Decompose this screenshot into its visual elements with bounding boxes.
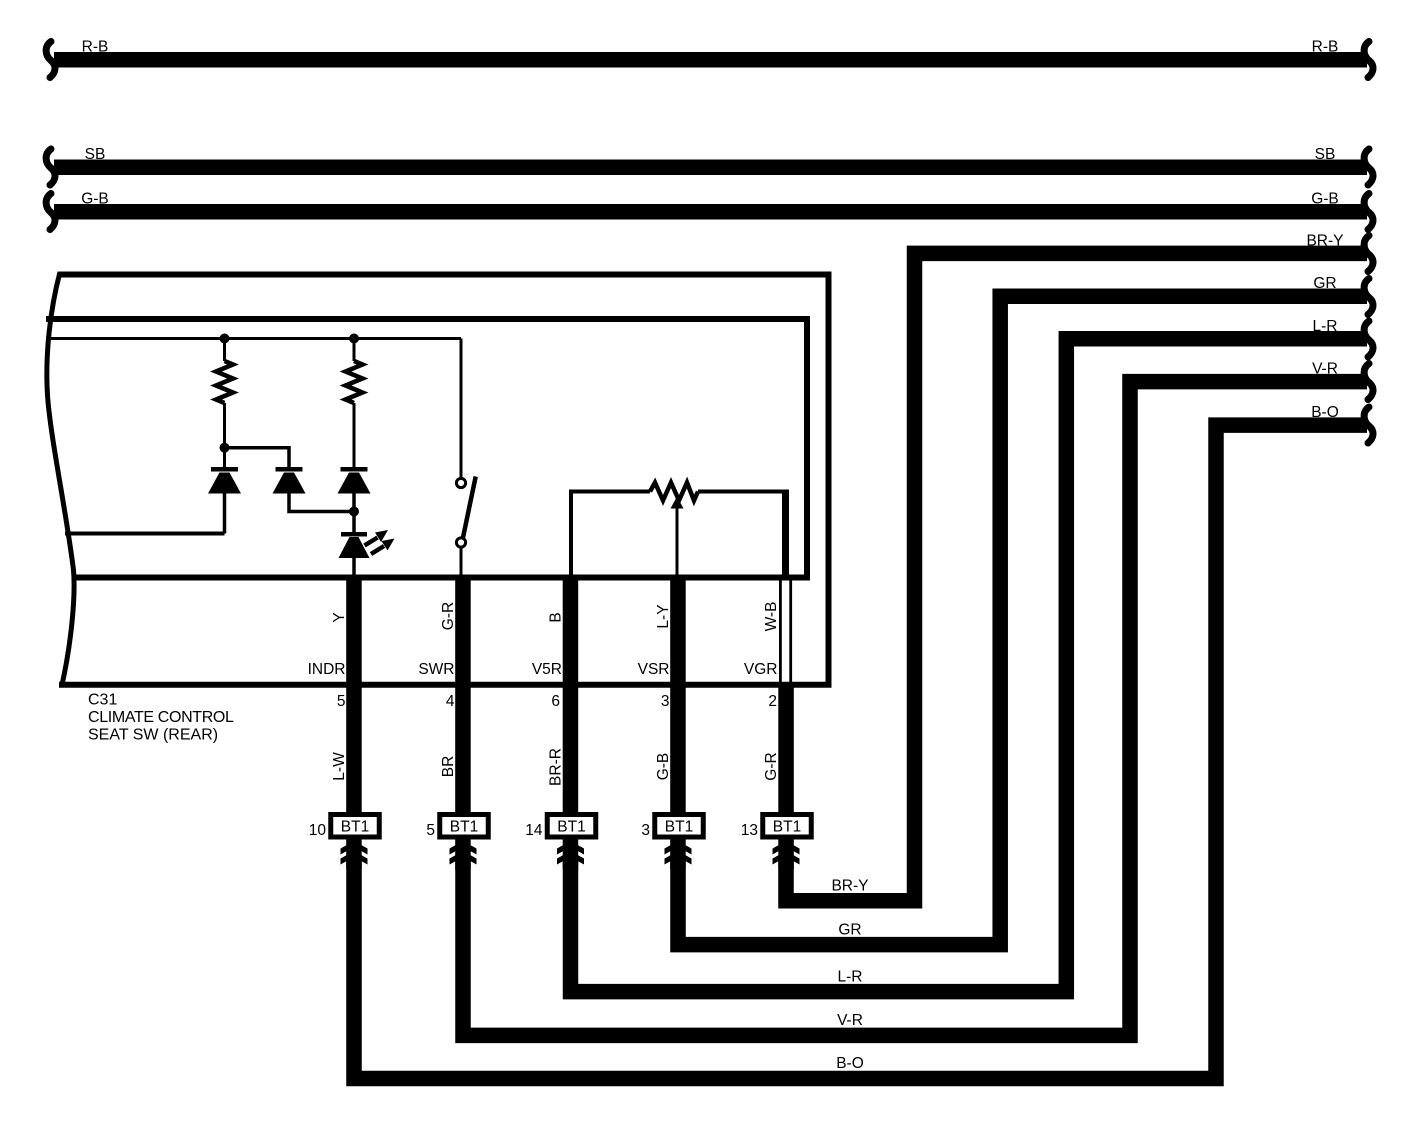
torn left edge of C31 bbox=[47, 272, 74, 687]
svg-text:BT1: BT1 bbox=[557, 819, 585, 836]
connector BT1 pin 5 bbox=[426, 815, 488, 840]
node B (right resistor top) bbox=[349, 334, 359, 344]
connector BT1 pin 13 bbox=[741, 815, 812, 840]
wire L-R (pin 14 BT1 to right edge) bbox=[571, 339, 1368, 992]
break symbol right of G-B bbox=[1364, 194, 1373, 230]
svg-text:BT1: BT1 bbox=[773, 819, 801, 836]
svg-text:R-B: R-B bbox=[82, 39, 109, 56]
svg-text:SB: SB bbox=[85, 146, 106, 163]
svg-text:L-Y: L-Y bbox=[655, 604, 672, 628]
switch blade bbox=[463, 477, 476, 538]
svg-text:B-O: B-O bbox=[1311, 404, 1339, 421]
svg-text:SWR: SWR bbox=[418, 661, 454, 678]
svg-text:SB: SB bbox=[1315, 146, 1336, 163]
svg-text:2: 2 bbox=[768, 693, 777, 710]
break symbol right of R-B bbox=[1364, 42, 1373, 78]
svg-text:BR-R: BR-R bbox=[548, 748, 565, 786]
diode D3 bbox=[338, 467, 371, 512]
svg-text:VSR: VSR bbox=[638, 661, 670, 678]
pin INDR bar (pin 5) bbox=[346, 575, 362, 813]
svg-text:BT1: BT1 bbox=[665, 819, 693, 836]
wire V-R (pin 5 BT1 to right edge) bbox=[463, 382, 1367, 1036]
svg-text:BR: BR bbox=[440, 756, 457, 778]
svg-text:INDR: INDR bbox=[308, 661, 346, 678]
svg-text:L-R: L-R bbox=[1313, 318, 1338, 335]
node D (junction above LED) bbox=[349, 507, 359, 517]
svg-text:V5R: V5R bbox=[532, 661, 562, 678]
svg-text:BR-Y: BR-Y bbox=[831, 878, 868, 895]
wire G-B bbox=[54, 204, 1367, 220]
svg-text:G-B: G-B bbox=[1311, 191, 1339, 208]
break symbol left of R-B bbox=[46, 42, 55, 78]
node A (left resistor top) bbox=[220, 334, 230, 344]
break symbol right of B-O bbox=[1364, 407, 1373, 443]
wire R-B (top horizontal) bbox=[54, 52, 1367, 68]
svg-text:6: 6 bbox=[551, 693, 560, 710]
svg-text:SEAT SW (REAR): SEAT SW (REAR) bbox=[88, 727, 218, 744]
label C31 connector name bbox=[88, 692, 234, 744]
connector BT1 pin 3 bbox=[641, 815, 703, 840]
break symbol right of GR bbox=[1364, 279, 1373, 315]
wire B-O (pin 10 BT1 to right edge) bbox=[354, 425, 1367, 1078]
svg-text:14: 14 bbox=[525, 822, 543, 839]
arrow into BT1 pin 3 bbox=[665, 840, 692, 870]
diode D2 bbox=[273, 467, 355, 512]
wire internal bus (thin, y=338.5) bbox=[47, 337, 461, 340]
break symbol right of L-R bbox=[1364, 321, 1373, 357]
wire jog node C to diode D2 bbox=[225, 448, 290, 467]
svg-text:VGR: VGR bbox=[744, 661, 778, 678]
diode D1 bbox=[208, 467, 241, 534]
svg-text:V-R: V-R bbox=[1312, 361, 1338, 378]
svg-text:5: 5 bbox=[426, 822, 435, 839]
wire D1 to torn edge bbox=[65, 532, 225, 536]
arrow into BT1 pin 14 bbox=[557, 840, 584, 870]
svg-text:Y: Y bbox=[331, 612, 348, 622]
svg-text:R-B: R-B bbox=[1312, 39, 1339, 56]
resistor R2 (right) bbox=[353, 339, 356, 362]
LED arrow 2 bbox=[371, 539, 395, 555]
break symbol left of G-B bbox=[46, 194, 55, 230]
svg-text:GR: GR bbox=[1313, 275, 1336, 292]
svg-text:G-B: G-B bbox=[655, 753, 672, 781]
break symbol left of SB bbox=[46, 149, 55, 185]
pin VGR solid bar below box bbox=[778, 682, 794, 812]
LED arrow 1 bbox=[365, 530, 389, 546]
svg-text:B: B bbox=[548, 612, 565, 622]
break symbol right of BR-Y bbox=[1364, 236, 1373, 272]
svg-text:BT1: BT1 bbox=[341, 819, 369, 836]
potentiometer VR1 bbox=[571, 483, 789, 579]
pin SWR bar (pin 4) bbox=[455, 575, 471, 813]
component C31 outer box bbox=[59, 275, 829, 685]
arrow into BT1 pin 13 bbox=[773, 840, 800, 870]
pin VGR hollow wire (pin 2, W-B) bbox=[779, 581, 792, 685]
node C (junction below R1) bbox=[220, 443, 230, 453]
svg-text:5: 5 bbox=[337, 693, 346, 710]
svg-text:G-R: G-R bbox=[763, 752, 780, 780]
arrow into BT1 pin 5 bbox=[450, 840, 477, 870]
wire SB bbox=[54, 160, 1367, 176]
svg-text:BR-Y: BR-Y bbox=[1306, 232, 1343, 249]
svg-text:V-R: V-R bbox=[837, 1012, 863, 1029]
svg-text:13: 13 bbox=[741, 822, 758, 839]
svg-text:W-B: W-B bbox=[763, 602, 780, 632]
svg-text:L-W: L-W bbox=[331, 752, 348, 781]
switch SW contact bbox=[460, 339, 463, 478]
arrow into BT1 pin 10 bbox=[341, 840, 368, 870]
resistor R1 (left) bbox=[223, 339, 226, 362]
svg-text:C31: C31 bbox=[88, 692, 117, 709]
break symbol right of SB bbox=[1364, 149, 1373, 185]
svg-text:B-O: B-O bbox=[836, 1055, 864, 1072]
inner switch block box bbox=[46, 319, 807, 578]
pin VSR bar (pin 3) bbox=[670, 575, 686, 813]
svg-text:CLIMATE CONTROL: CLIMATE CONTROL bbox=[88, 709, 234, 726]
pin V5R bar (pin 6) bbox=[563, 575, 579, 813]
svg-text:4: 4 bbox=[446, 693, 455, 710]
svg-text:G-R: G-R bbox=[440, 602, 457, 630]
break symbol right of V-R bbox=[1364, 364, 1373, 400]
svg-text:10: 10 bbox=[309, 822, 327, 839]
connector BT1 pin 10 bbox=[309, 815, 380, 840]
svg-text:3: 3 bbox=[641, 822, 650, 839]
potentiometer wiper arrow bbox=[671, 497, 684, 579]
svg-text:GR: GR bbox=[838, 921, 861, 938]
svg-text:BT1: BT1 bbox=[450, 819, 478, 836]
wire BR-Y (pin 13 BT1 to right edge) bbox=[786, 253, 1367, 900]
svg-text:L-R: L-R bbox=[838, 968, 863, 985]
connector BT1 pin 14 bbox=[525, 815, 596, 840]
svg-text:G-B: G-B bbox=[81, 191, 109, 208]
LED D4 bbox=[339, 512, 370, 581]
svg-text:3: 3 bbox=[661, 693, 670, 710]
wire GR (pin 3 BT1 to right edge) bbox=[678, 296, 1367, 944]
